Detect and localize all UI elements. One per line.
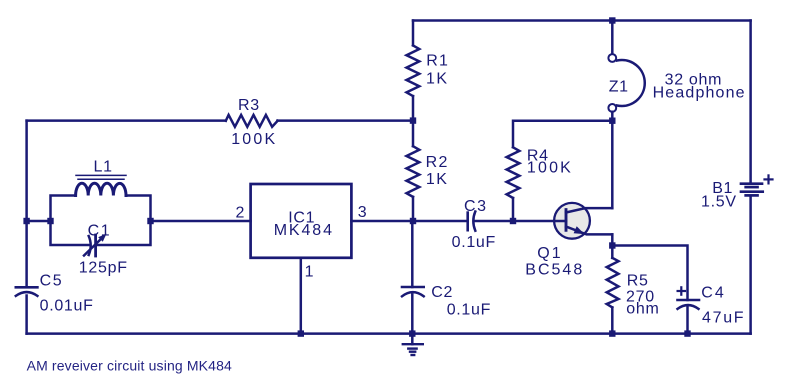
- capacitor C1 arrow: [84, 237, 104, 256]
- svg-text:C5: C5: [40, 273, 64, 290]
- wire emitter junction to C4: [612, 246, 687, 301]
- battery B1 short plate 2: [746, 194, 758, 197]
- wire R4 bottom lead: [512, 198, 515, 221]
- node tank right edge: [147, 218, 153, 224]
- resistor R3: [226, 115, 278, 127]
- node R1/R2/R3 junction: [410, 117, 416, 123]
- wire tank to IC pin2: [151, 220, 251, 223]
- svg-text:R2: R2: [426, 154, 449, 171]
- wire bottom rail: [27, 332, 751, 335]
- capacitor C3 curved plate: [473, 212, 475, 231]
- wire R5 bottom lead: [611, 307, 614, 333]
- wire emitter down: [611, 234, 614, 245]
- svg-text:C2: C2: [431, 284, 453, 301]
- svg-text:R1: R1: [426, 52, 449, 69]
- node R4 bottom junction: [510, 218, 516, 224]
- resistor R1: [407, 45, 420, 96]
- svg-text:2: 2: [236, 204, 246, 221]
- svg-text:Z1: Z1: [609, 78, 629, 95]
- wire R2 bottom lead: [412, 197, 415, 221]
- svg-text:100K: 100K: [231, 131, 277, 148]
- resistor R4: [507, 147, 520, 198]
- svg-text:Q1: Q1: [537, 245, 562, 262]
- svg-text:0.1uF: 0.1uF: [452, 234, 496, 251]
- capacitor C1 straight plate: [94, 235, 97, 256]
- wire collector up to Z1 node: [611, 121, 614, 208]
- wire R2 top lead: [412, 121, 415, 147]
- wire top rail: [413, 19, 751, 22]
- svg-text:Headphone: Headphone: [653, 85, 746, 102]
- wire R3 row right: [277, 119, 413, 122]
- svg-text:C1: C1: [88, 223, 112, 240]
- svg-text:1: 1: [305, 264, 315, 281]
- node C2 bottom rail: [409, 330, 415, 336]
- wire tank left lead: [27, 220, 51, 223]
- LC tank rectangle: [51, 196, 89, 246]
- headphone Z1 top lead: [611, 21, 614, 55]
- inductor L1 core lines: [76, 174, 126, 176]
- wire R3 row left: [27, 119, 226, 122]
- svg-text:3: 3: [358, 204, 368, 221]
- wire IC pin1: [300, 258, 303, 334]
- wire IC pin3: [351, 220, 413, 223]
- transistor Q1 emitter arrow: [574, 226, 585, 234]
- wire R2 junction to C2: [411, 221, 414, 287]
- wire left side lower: [25, 296, 28, 334]
- svg-text:125pF: 125pF: [79, 260, 128, 277]
- capacitor C1 (variable) left curved plate: [89, 236, 91, 255]
- svg-text:1K: 1K: [426, 71, 449, 88]
- svg-text:AM reveiver circuit using MK48: AM reveiver circuit using MK484: [27, 357, 232, 373]
- inductor L1 coil: [76, 183, 126, 195]
- capacitor C5 flat plate: [16, 286, 38, 289]
- resistor R5: [607, 258, 619, 308]
- transistor Q1 circle: [554, 203, 590, 239]
- headphone Z1 bottom terminal circle: [608, 104, 616, 112]
- wire R1 bottom lead: [412, 96, 415, 121]
- battery B1 plus sign: [765, 178, 773, 180]
- svg-text:L1: L1: [94, 159, 113, 176]
- battery B1 long plate top: [741, 182, 762, 185]
- ground stub: [411, 334, 414, 345]
- capacitor C4 plus sign: [678, 290, 685, 292]
- headphone Z1 top terminal circle: [608, 54, 616, 62]
- headphone Z1 bottom lead: [611, 112, 614, 121]
- battery B1 long plate 2: [741, 190, 763, 193]
- svg-text:C3: C3: [464, 198, 488, 215]
- transistor Q1 collector: [566, 208, 612, 212]
- svg-text:1K: 1K: [426, 171, 449, 188]
- wire right side lower: [749, 197, 752, 334]
- wire R1 top lead: [412, 21, 415, 46]
- svg-text:0.01uF: 0.01uF: [40, 297, 94, 314]
- wire C4 to bottom rail: [686, 307, 689, 334]
- svg-text:100K: 100K: [527, 159, 573, 176]
- node pin3 junction: [410, 218, 416, 224]
- svg-text:BC548: BC548: [525, 262, 584, 279]
- svg-text:0.1uF: 0.1uF: [447, 302, 491, 319]
- node top rail Z1: [609, 17, 615, 23]
- capacitor C3 straight plate: [466, 213, 469, 231]
- capacitor C5 curved plate: [16, 292, 38, 296]
- op IC1 box: [251, 184, 352, 258]
- capacitor C4 curved plate: [678, 305, 699, 309]
- svg-text:47uF: 47uF: [702, 309, 745, 326]
- ground bar 4: [412, 354, 415, 356]
- ground bar 3: [410, 351, 415, 353]
- transistor Q1 base bar: [565, 210, 568, 231]
- wire left side upper: [25, 121, 28, 286]
- node R5 bottom rail: [609, 330, 615, 336]
- svg-text:MK484: MK484: [274, 222, 334, 239]
- headphone Z1 arc: [617, 60, 645, 106]
- wire pin3 junction to C3: [413, 220, 468, 223]
- svg-text:1.5V: 1.5V: [701, 193, 737, 210]
- node tank left edge: [47, 218, 53, 224]
- battery B1 short plate 1: [746, 186, 758, 189]
- transistor Q1 emitter: [566, 227, 612, 235]
- svg-text:C4: C4: [701, 285, 725, 302]
- capacitor C4 flat plate: [678, 299, 700, 302]
- wire R4 top lead: [513, 121, 612, 148]
- node Z1 bottom junction: [609, 118, 615, 124]
- node pin1 on bottom rail: [298, 330, 304, 336]
- svg-text:R3: R3: [238, 97, 260, 114]
- wire right side upper: [749, 21, 752, 183]
- node C4 bottom rail: [684, 330, 690, 336]
- ground bar 1: [403, 343, 423, 345]
- node tank left on wire: [23, 218, 29, 224]
- node emitter junction: [609, 242, 615, 248]
- ground bar 2: [408, 347, 416, 349]
- capacitor C2 curved plate: [402, 292, 424, 296]
- svg-text:ohm: ohm: [626, 301, 659, 318]
- resistor R2: [407, 146, 420, 197]
- svg-text:R5: R5: [627, 272, 649, 289]
- wire C3 to base junction: [474, 220, 513, 223]
- wire emitter junction to R5: [611, 246, 614, 258]
- wire base junction to Q1: [513, 220, 566, 223]
- wire C2 to bottom rail: [411, 295, 414, 334]
- capacitor C2 flat plate: [402, 286, 424, 289]
